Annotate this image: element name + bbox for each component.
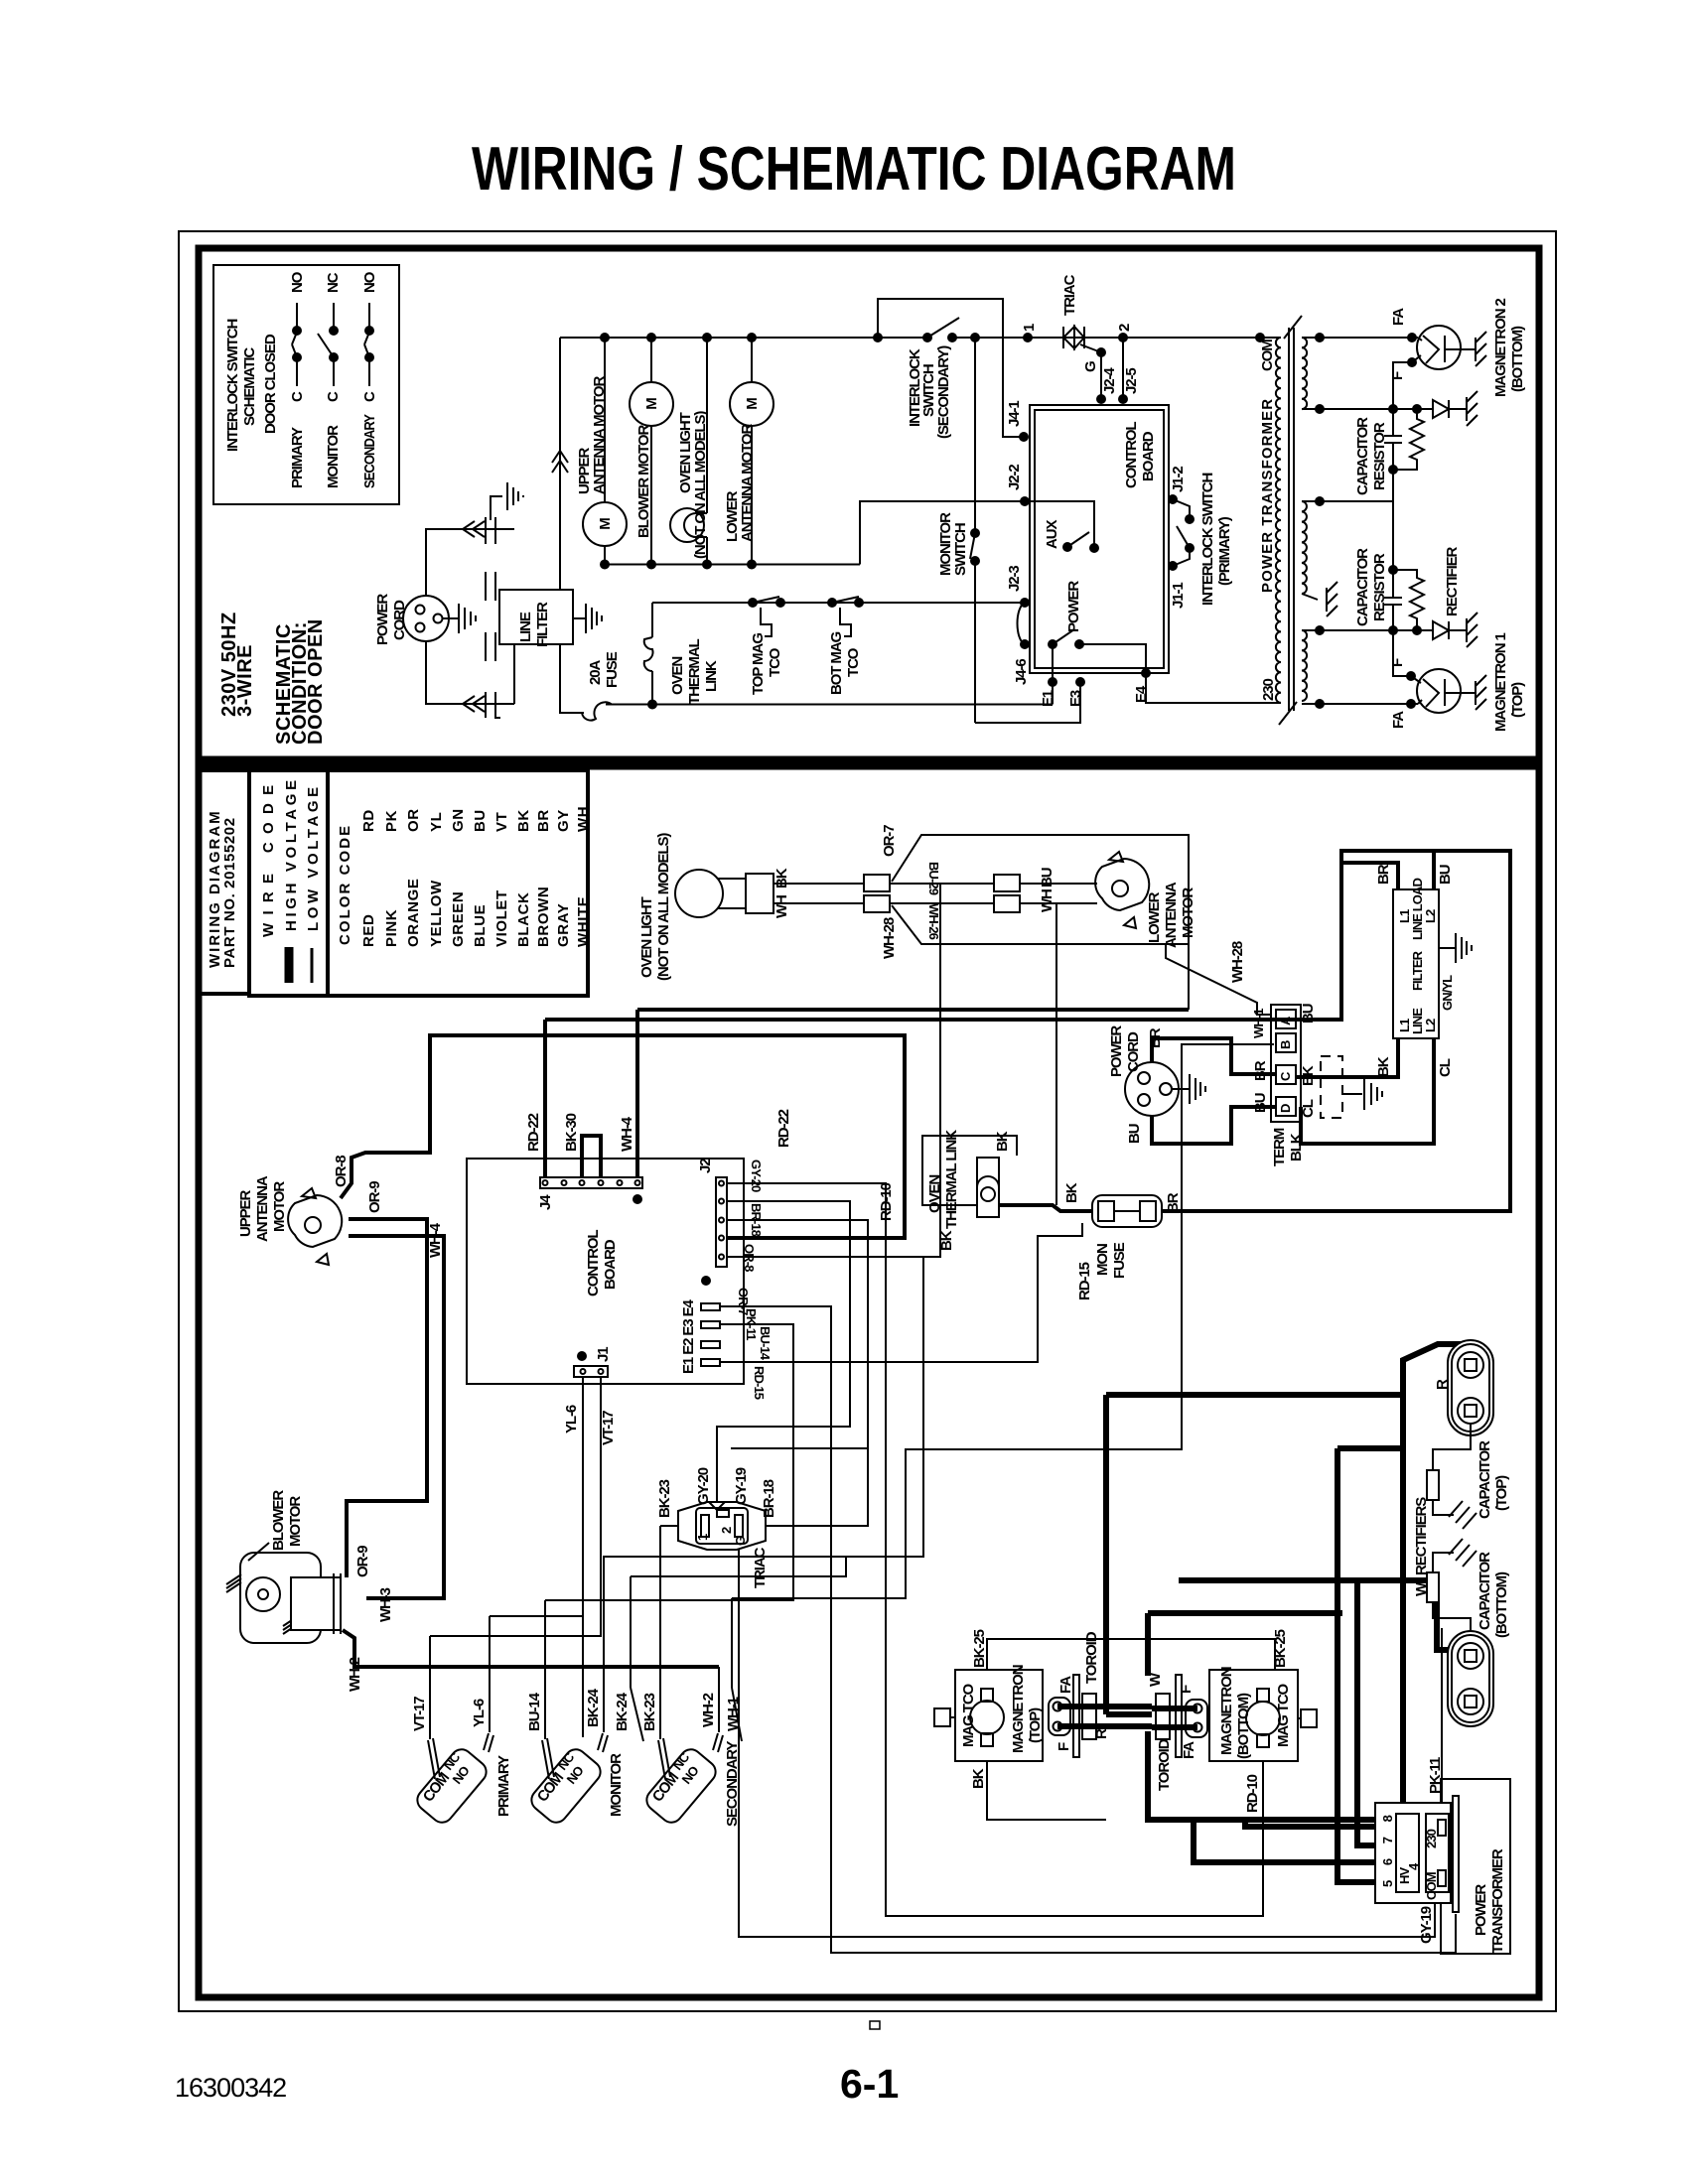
svg-text:J1-2: J1-2 [1170, 467, 1187, 492]
GN/YL ground [1439, 947, 1456, 949]
svg-text:J1-1: J1-1 [1170, 583, 1187, 609]
svg-text:BU: BU [1252, 1093, 1269, 1113]
svg-text:E1: E1 [1040, 690, 1056, 707]
svg-text:LINK: LINK [703, 660, 720, 692]
svg-text:DOOR OPEN: DOOR OPEN [305, 618, 327, 745]
control board (schematic) [1030, 405, 1169, 673]
svg-text:230: 230 [1424, 1829, 1439, 1848]
svg-text:TCO: TCO [767, 647, 783, 677]
svg-text:TOROID: TOROID [1083, 1631, 1100, 1684]
wiring section thick border [199, 766, 1539, 1997]
svg-text:MAGNETRON 1: MAGNETRON 1 [1492, 633, 1509, 732]
svg-text:OR-8: OR-8 [742, 1244, 757, 1272]
svg-text:BK-25: BK-25 [971, 1629, 988, 1668]
term blk [1271, 1005, 1301, 1122]
capacitor (bottom) [1448, 1631, 1493, 1726]
dashed box and ground [1321, 1056, 1342, 1118]
svg-text:SWITCH: SWITCH [952, 523, 969, 576]
svg-text:BK-24: BK-24 [585, 1688, 602, 1727]
svg-text:(BOTTOM): (BOTTOM) [1509, 326, 1526, 392]
svg-text:CAPACITOR: CAPACITOR [1354, 548, 1371, 626]
secondary windings [1302, 338, 1307, 409]
svg-text:WH-4: WH-4 [619, 1116, 635, 1152]
svg-text:BOARD: BOARD [1140, 431, 1157, 481]
svg-text:J2-5: J2-5 [1123, 368, 1140, 394]
svg-text:PINK: PINK [383, 909, 400, 947]
svg-text:M: M [744, 398, 761, 410]
svg-text:M: M [643, 398, 660, 410]
svg-text:PRIMARY: PRIMARY [289, 427, 306, 488]
svg-text:R: R [1434, 1379, 1451, 1390]
svg-text:BROWN: BROWN [535, 887, 552, 947]
ground right of line filter [573, 617, 586, 619]
svg-text:WH-3: WH-3 [377, 1587, 394, 1622]
BR-18 run [727, 1220, 868, 1526]
svg-text:OVEN LIGHT: OVEN LIGHT [638, 896, 655, 978]
magnetron 1 row [1302, 703, 1418, 705]
power transformer (wiring) [1441, 1779, 1510, 1954]
svg-text:GY-19: GY-19 [733, 1467, 750, 1505]
svg-text:YL: YL [428, 812, 445, 832]
J1 wires down [430, 1444, 601, 1636]
svg-text:D: D [1278, 1104, 1293, 1113]
svg-text:COM: COM [1259, 340, 1276, 371]
WH-2 wire [343, 1630, 719, 1667]
top bus [560, 337, 927, 339]
svg-text:TRANSFORMER: TRANSFORMER [1489, 1848, 1506, 1954]
svg-text:YL-6: YL-6 [471, 1699, 488, 1727]
svg-text:OR-7: OR-7 [881, 825, 898, 857]
svg-text:WH-26: WH-26 [926, 903, 941, 940]
RD-15 run [720, 1223, 1082, 1362]
WH-1 run [732, 1044, 1274, 1598]
svg-text:BU: BU [1039, 868, 1055, 887]
svg-text:W: W [1413, 1581, 1430, 1596]
AUX switch [1062, 542, 1072, 552]
svg-text:WH-2: WH-2 [700, 1693, 717, 1727]
svg-text:L2: L2 [1423, 909, 1438, 923]
svg-text:POWER: POWER [1065, 581, 1082, 632]
svg-text:F: F [1389, 658, 1406, 667]
svg-text:OR-9: OR-9 [354, 1546, 371, 1577]
svg-text:R: R [1093, 1728, 1110, 1739]
svg-text:C: C [325, 391, 342, 402]
oven thermal link (schematic) [651, 671, 653, 705]
capacitor resistor 1 [1384, 435, 1402, 437]
svg-text:RED: RED [360, 914, 377, 947]
thick HV routing [1103, 1395, 1109, 1714]
svg-text:LINE LOAD: LINE LOAD [1410, 879, 1425, 940]
banner outline [892, 835, 1189, 944]
svg-text:CL: CL [1437, 1058, 1454, 1077]
svg-text:FA: FA [1181, 1741, 1197, 1759]
svg-text:RD-15: RD-15 [752, 1366, 767, 1400]
transformer core [1288, 328, 1290, 711]
svg-text:BLOWER: BLOWER [270, 1490, 287, 1551]
svg-text:CAPACITOR: CAPACITOR [1477, 1552, 1493, 1630]
svg-text:PK-11: PK-11 [1427, 1757, 1444, 1794]
svg-text:OR: OR [405, 808, 422, 832]
svg-text:BK: BK [1375, 1056, 1392, 1077]
svg-text:(PRIMARY): (PRIMARY) [1216, 516, 1233, 586]
svg-text:F: F [1055, 1742, 1072, 1751]
svg-text:RD-22: RD-22 [525, 1113, 542, 1152]
svg-text:RECTIFIERS: RECTIFIERS [1413, 1497, 1430, 1575]
line filter box (wiring) [1393, 889, 1439, 1038]
svg-text:PK: PK [383, 810, 400, 832]
svg-text:CONTROL: CONTROL [1123, 422, 1140, 488]
svg-text:OR-8: OR-8 [333, 1156, 350, 1187]
svg-text:J2-2: J2-2 [1006, 465, 1023, 490]
svg-text:F: F [1389, 371, 1406, 380]
svg-text:FA: FA [1390, 308, 1407, 326]
svg-text:TRIAC: TRIAC [1061, 274, 1078, 316]
svg-text:LOW VOLTAGE: LOW VOLTAGE [305, 787, 322, 931]
capacitor resistor 2 [1388, 565, 1398, 575]
svg-text:L2: L2 [1423, 1019, 1438, 1032]
svg-text:HIGH VOLTAGE: HIGH VOLTAGE [283, 780, 300, 931]
svg-text:MOTOR: MOTOR [271, 1181, 288, 1232]
svg-text:2: 2 [1116, 324, 1133, 332]
svg-text:J2: J2 [697, 1159, 714, 1173]
svg-text:NO: NO [289, 271, 306, 293]
svg-text:ANTENNA MOTOR: ANTENNA MOTOR [739, 424, 756, 542]
J4-1 [1019, 432, 1029, 442]
svg-text:(NOT ON ALL MODELS): (NOT ON ALL MODELS) [655, 833, 672, 981]
J4 wires: RD-22, BK-30 loop, WH-4 [543, 1020, 547, 1177]
BU-14 run [545, 1324, 793, 1600]
svg-text:FA: FA [1390, 711, 1407, 729]
svg-text:WH-1: WH-1 [1251, 1009, 1266, 1038]
GY-20 run [717, 1201, 850, 1506]
bottom rail to E1 [606, 704, 1053, 706]
J2 connector [716, 1177, 727, 1267]
GY-19 run [739, 1518, 1435, 1937]
svg-text:THERMAL: THERMAL [686, 638, 703, 705]
BK-24 runs [604, 1257, 940, 1732]
svg-text:LOWER: LOWER [1146, 891, 1163, 943]
legend box: wiring diagram part no [199, 770, 249, 994]
WH-28 drop to term blk [1166, 944, 1274, 1015]
bypass loop to J4-1 [878, 299, 1024, 437]
oven thermal link (wiring) [922, 1136, 1017, 1205]
svg-text:BK: BK [774, 868, 790, 888]
svg-text:WH: WH [575, 806, 592, 832]
svg-text:MONITOR: MONITOR [608, 1753, 625, 1817]
J2-2 [1020, 496, 1030, 506]
svg-text:E4: E4 [1133, 685, 1150, 703]
svg-text:BK-30: BK-30 [563, 1113, 580, 1152]
outer thin border frame [179, 231, 1556, 2011]
OR-8 wire [341, 1035, 905, 1238]
interlock switch secondary blade [927, 318, 959, 338]
svg-text:GRAY: GRAY [555, 903, 572, 947]
svg-text:TCO: TCO [845, 647, 862, 677]
svg-text:ANTENNA: ANTENNA [254, 1175, 271, 1242]
svg-text:RD-22: RD-22 [775, 1109, 792, 1148]
svg-text:TERM: TERM [1271, 1128, 1288, 1166]
svg-text:E3: E3 [1067, 690, 1084, 707]
upper antenna motor branch [604, 338, 606, 502]
BK-23 run [660, 1525, 678, 1527]
RD-10 run [727, 1183, 1263, 1916]
svg-text:FUSE: FUSE [604, 651, 621, 688]
svg-text:J4-6: J4-6 [1013, 659, 1030, 685]
magnetron 2 ground [1462, 348, 1476, 350]
svg-text:(TOP): (TOP) [1493, 1475, 1510, 1511]
svg-text:J2-4: J2-4 [1101, 367, 1118, 394]
svg-text:(NOT ON ALL MODELS): (NOT ON ALL MODELS) [692, 411, 709, 559]
svg-text:CORD: CORD [391, 600, 408, 640]
svg-text:WH: WH [774, 895, 790, 918]
interlock switch schematic legend box [213, 265, 399, 504]
svg-text:VT-17: VT-17 [600, 1411, 617, 1445]
svg-text:GREEN: GREEN [450, 891, 467, 947]
svg-text:B: B [1278, 1040, 1293, 1049]
door switch MONITOR [527, 1745, 605, 1827]
svg-text:CAPACITOR: CAPACITOR [1354, 417, 1371, 495]
mon fuse [1092, 1195, 1162, 1227]
svg-text:BK-23: BK-23 [641, 1693, 658, 1731]
svg-text:2: 2 [719, 1527, 734, 1534]
svg-text:AUX: AUX [1044, 520, 1060, 549]
svg-text:BK: BK [970, 1768, 987, 1789]
bot mag tco switch [832, 597, 859, 603]
BK wire thermal link to fuse [999, 1205, 1092, 1211]
row y412 with diode1 [1302, 408, 1433, 410]
svg-text:LINE: LINE [517, 612, 534, 642]
J1 connector [574, 1366, 608, 1377]
OR-9 wire [347, 1219, 427, 1577]
svg-text:BLUE: BLUE [472, 904, 489, 947]
svg-text:COM: COM [1424, 1872, 1439, 1900]
svg-text:RESISTOR: RESISTOR [1371, 422, 1388, 490]
left rail up to bus [559, 338, 561, 590]
svg-text:GN: GN [450, 808, 467, 832]
door switch SECONDARY [642, 1745, 720, 1827]
svg-text:POWER TRANSFORMER: POWER TRANSFORMER [1259, 399, 1276, 593]
svg-text:TOP MAG: TOP MAG [750, 633, 767, 695]
svg-text:WH-4: WH-4 [427, 1222, 444, 1258]
svg-text:F: F [1178, 1685, 1195, 1694]
svg-text:G: G [733, 1536, 748, 1546]
svg-text:RD-15: RD-15 [1076, 1262, 1093, 1300]
interlock switch primary [1168, 494, 1178, 504]
svg-text:BR: BR [1252, 1060, 1269, 1081]
svg-text:RESISTOR: RESISTOR [1371, 553, 1388, 621]
svg-text:MON: MON [1094, 1244, 1111, 1276]
BR wire from fuse to loop [1162, 960, 1510, 1211]
svg-text:MONITOR: MONITOR [325, 425, 342, 488]
svg-text:WIRE CODE: WIRE CODE [260, 785, 277, 937]
svg-text:BR: BR [535, 809, 552, 832]
svg-text:J1: J1 [595, 1347, 612, 1362]
legend box: wire code [249, 770, 328, 996]
svg-text:ANTENNA MOTOR: ANTENNA MOTOR [591, 376, 608, 494]
svg-text:POWER: POWER [1473, 1884, 1489, 1936]
svg-text:COLOR CODE: COLOR CODE [337, 826, 353, 945]
svg-text:M: M [597, 518, 614, 530]
svg-text:FA: FA [1057, 1676, 1074, 1694]
magnetron 2 row [1302, 337, 1418, 339]
E1 E3 E4 [1048, 677, 1057, 687]
svg-text:THERMAL LINK: THERMAL LINK [943, 1130, 960, 1229]
long runs at top of wiring area [545, 1018, 1306, 1022]
capacitor (top) [1448, 1340, 1493, 1435]
BR wire to C, BU wire to D [1152, 1038, 1276, 1074]
svg-text:PART NO. 20155202: PART NO. 20155202 [221, 817, 238, 968]
blower motor branch [650, 338, 652, 382]
lower antenna motor (wiring) [1095, 859, 1149, 910]
svg-text:J2-3: J2-3 [1006, 566, 1023, 592]
svg-text:TRIAC: TRIAC [752, 1547, 769, 1588]
svg-text:(BOTTOM): (BOTTOM) [1235, 1693, 1252, 1759]
svg-text:VT: VT [493, 812, 510, 832]
svg-text:CONTROL: CONTROL [585, 1230, 602, 1297]
POWER switch [1048, 639, 1057, 649]
svg-text:BLACK: BLACK [515, 892, 532, 948]
svg-text:BU-14: BU-14 [526, 1692, 543, 1731]
svg-text:SCHEMATIC: SCHEMATIC [241, 347, 258, 426]
svg-text:RD-10: RD-10 [1244, 1774, 1261, 1813]
20A fuse [582, 702, 612, 720]
TCO line [652, 602, 1025, 604]
svg-text:BR: BR [1375, 864, 1392, 885]
svg-text:WIRING / SCHEMATIC DIAGRAM: WIRING / SCHEMATIC DIAGRAM [472, 135, 1236, 204]
power cord top loop wire [426, 529, 514, 596]
svg-text:MAGNETRON 2: MAGNETRON 2 [1492, 299, 1509, 397]
svg-text:OVEN: OVEN [669, 657, 686, 695]
chevrons top wire [463, 521, 475, 537]
svg-text:BK-25: BK-25 [1272, 1629, 1289, 1668]
door switch PRIMARY [413, 1745, 491, 1827]
line filter box (schematic) [499, 590, 573, 644]
svg-text:OR-9: OR-9 [366, 1181, 383, 1213]
svg-text:ANTENNA: ANTENNA [1163, 882, 1180, 948]
svg-text:(TOP): (TOP) [1509, 682, 1526, 718]
svg-text:FILTER: FILTER [534, 602, 551, 647]
svg-text:TOROID: TOROID [1156, 1738, 1173, 1791]
OR-7 run [727, 884, 940, 1257]
svg-text:NC: NC [325, 272, 342, 293]
svg-text:MOTOR: MOTOR [287, 1496, 304, 1547]
svg-text:WHITE: WHITE [575, 896, 592, 947]
svg-text:BU: BU [1437, 865, 1454, 885]
F FA bracket + toroid (top) [1049, 1698, 1070, 1735]
svg-text:SECONDARY: SECONDARY [724, 1741, 741, 1827]
svg-text:SECONDARY: SECONDARY [361, 414, 378, 488]
monitor switch (schematic) [974, 338, 976, 533]
svg-text:POWER: POWER [374, 594, 391, 645]
top mag tco switch [753, 597, 779, 603]
svg-text:BU-29: BU-29 [926, 862, 941, 895]
oven light branch [706, 338, 708, 513]
E pins [701, 1303, 720, 1310]
svg-text:BU: BU [1126, 1124, 1143, 1144]
svg-text:GY-20: GY-20 [695, 1467, 712, 1505]
J2-3 [1020, 598, 1030, 608]
svg-text:1: 1 [1021, 324, 1038, 332]
svg-text:GY-20: GY-20 [749, 1160, 764, 1192]
svg-text:BOARD: BOARD [602, 1239, 619, 1290]
svg-text:(TOP): (TOP) [1027, 1707, 1044, 1743]
row y635 with diode2 [1302, 629, 1433, 631]
svg-text:E1 E2 E3 E4: E1 E2 E3 E4 [680, 1298, 697, 1374]
svg-text:ORANGE: ORANGE [405, 879, 422, 947]
svg-text:1: 1 [695, 1534, 710, 1541]
svg-text:BR-18: BR-18 [761, 1479, 777, 1518]
lower antenna motor branch [751, 338, 753, 382]
svg-text:WH-28: WH-28 [881, 917, 898, 959]
svg-text:(BOTTOM): (BOTTOM) [1493, 1571, 1510, 1638]
rail up to J2-2 line [860, 501, 1025, 565]
svg-text:C: C [289, 391, 306, 402]
magnetron (top) assembly [955, 1670, 1043, 1761]
svg-text:YL-6: YL-6 [563, 1405, 580, 1433]
svg-text:MAG TCO: MAG TCO [1275, 1683, 1292, 1747]
svg-text:FILTER: FILTER [1410, 950, 1425, 991]
svg-text:WH-1: WH-1 [725, 1697, 742, 1731]
svg-text:INTERLOCK SWITCH: INTERLOCK SWITCH [1199, 474, 1216, 606]
svg-text:MAGNETRON: MAGNETRON [1218, 1667, 1235, 1755]
triac plug (wiring) [678, 1502, 766, 1550]
svg-text:16300342: 16300342 [175, 2073, 286, 2103]
ground at power cord [443, 617, 459, 619]
J4 connector [540, 1177, 642, 1188]
svg-text:RD: RD [360, 809, 377, 832]
svg-text:DOOR CLOSED: DOOR CLOSED [262, 334, 279, 434]
svg-text:GY: GY [555, 809, 572, 832]
svg-text:CAPACITOR: CAPACITOR [1477, 1440, 1493, 1519]
svg-text:FUSE: FUSE [1111, 1242, 1128, 1279]
svg-text:WH: WH [1039, 889, 1055, 912]
svg-text:GN/YL: GN/YL [1440, 975, 1455, 1011]
upper antenna motor (wiring) [288, 1195, 342, 1247]
svg-text:BK: BK [515, 809, 532, 832]
svg-text:VIOLET: VIOLET [493, 889, 510, 947]
svg-text:NO: NO [361, 271, 378, 293]
svg-text:WH-28: WH-28 [1229, 941, 1246, 983]
svg-text:BK: BK [994, 1131, 1011, 1152]
control board (wiring) [467, 1159, 744, 1384]
blower motor [240, 1553, 321, 1643]
svg-text:MAGNETRON: MAGNETRON [1010, 1665, 1027, 1753]
legend box: color code [328, 770, 588, 996]
power cord bottom loop wire [426, 641, 514, 704]
svg-text:GY-19: GY-19 [1418, 1906, 1435, 1944]
motor bottom rail [605, 564, 860, 566]
line filter load loop (wiring) [1301, 960, 1341, 1020]
svg-text:BK: BK [1063, 1182, 1080, 1203]
svg-text:YELLOW: YELLOW [428, 880, 445, 947]
schematic section thick border [199, 248, 1539, 759]
svg-text:G: G [1082, 361, 1099, 372]
svg-text:J4-1: J4-1 [1006, 401, 1023, 427]
capacitor marks top wire [485, 517, 487, 544]
J4-6 bypass [1018, 603, 1026, 644]
PK-11 run [720, 1306, 1456, 1953]
svg-text:BU: BU [472, 809, 489, 832]
WH-4 wire [349, 1236, 444, 1598]
svg-text:INTERLOCK SWITCH: INTERLOCK SWITCH [224, 320, 241, 452]
svg-text:POWER: POWER [1108, 1025, 1125, 1077]
primary coil [1260, 337, 1281, 339]
left rail down to fuse [560, 644, 584, 713]
svg-text:MAG TCO: MAG TCO [960, 1683, 977, 1747]
svg-text:WH-2: WH-2 [347, 1657, 363, 1692]
svg-text:RECTIFIER: RECTIFIER [1444, 546, 1461, 616]
svg-text:6-1: 6-1 [840, 2061, 899, 2107]
